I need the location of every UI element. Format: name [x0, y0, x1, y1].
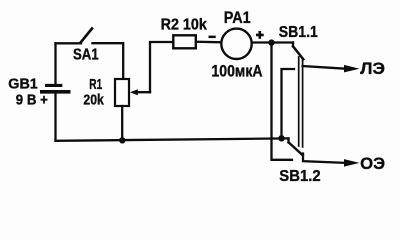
R1 wiper line [135, 91, 150, 93]
svg-text:GB1: GB1 [8, 77, 38, 93]
svg-text:PA1: PA1 [224, 8, 251, 27]
switch SB1.1 corner drop [292, 43, 294, 47]
link line right [302, 60, 304, 148]
wire SA1 right lead and corner down to R1 [93, 43, 124, 79]
node A junction dot [268, 39, 274, 45]
R1 wiper arrowhead [130, 89, 138, 95]
svg-text:100мкА: 100мкА [211, 63, 262, 81]
wire R2 to meter [197, 41, 222, 44]
wire battery plus up to top-left corner [54, 43, 56, 84]
meter PA1 circle [221, 29, 251, 59]
svg-text:R2 10k: R2 10k [161, 17, 207, 34]
LE output arrowhead [344, 65, 360, 73]
resistor R1 (potentiometer body) [115, 79, 129, 106]
switch SB1.1 arm [293, 46, 303, 59]
R1 wiper riser and wire to R2 [150, 42, 172, 92]
svg-text:SA1: SA1 [73, 47, 99, 64]
wire meter to SB1.1 [252, 41, 293, 43]
wire bottom rail [56, 138, 289, 140]
wire SA1 left lead [56, 42, 82, 44]
junction dot R1 bottom [119, 137, 125, 143]
svg-text:9 В +: 9 В + [16, 93, 48, 109]
resistor R2 body [173, 35, 196, 48]
wire to LE arrow [303, 66, 344, 69]
switch SB1.2 arm [289, 142, 303, 155]
OE output arrowhead [344, 159, 360, 167]
switch SA1 arm [81, 29, 92, 43]
wire SB1.2 to OE arrow [303, 154, 344, 163]
wire SB1.1 lower contact bracket [282, 69, 295, 138]
battery GB1 short plate [45, 84, 62, 87]
plus sign at meter [256, 31, 264, 39]
wire R1 bottom to rail [121, 106, 123, 140]
junction dot SB1.2 rail [278, 135, 284, 141]
link line left [298, 57, 300, 146]
wire from node A down and under to SB1.2 [272, 43, 293, 160]
svg-text:ЛЭ: ЛЭ [360, 60, 385, 78]
svg-text:20k: 20k [83, 92, 104, 109]
svg-text:ОЭ: ОЭ [360, 155, 385, 173]
wire battery minus down [54, 93, 56, 141]
svg-text:SB1.2: SB1.2 [279, 168, 320, 185]
minus sign at meter [209, 36, 216, 39]
svg-text:SB1.1: SB1.1 [279, 24, 318, 41]
switch SB1.2 corner drop [287, 138, 289, 142]
battery GB1 long plate [40, 90, 71, 94]
